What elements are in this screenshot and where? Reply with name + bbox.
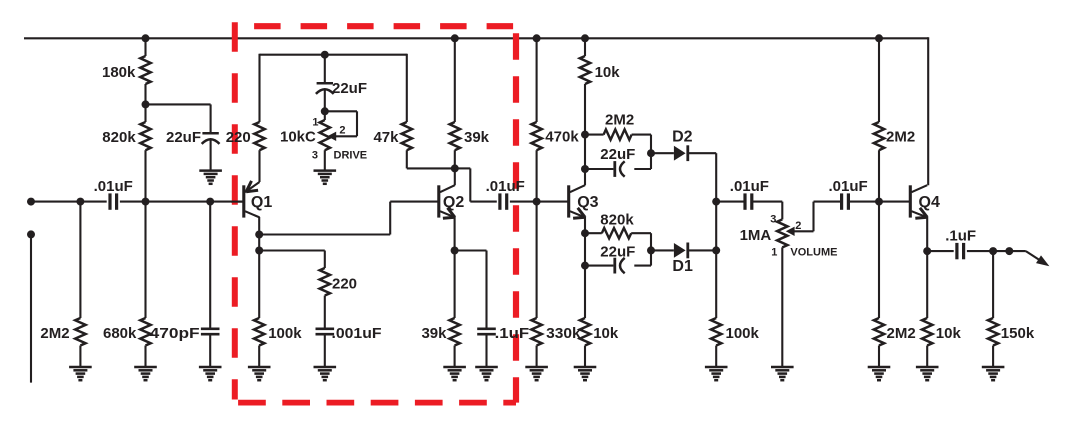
resistor R 2M2 (Q4 upper bias) (878, 38, 880, 122)
red dashed highlight box left edge (232, 22, 238, 399)
ground (470pF) (199, 366, 222, 369)
node: drive pot pin 1 (321, 107, 329, 115)
red dashed highlight box top edge (235, 23, 516, 29)
resistor R 820k (144, 104, 146, 122)
svg-text:.01uF: .01uF (829, 178, 868, 195)
resistor R 150k (output load) (992, 251, 994, 318)
wire: Q4 emitter to .1uF output cap (927, 250, 954, 252)
wire: Q1 junction to 220/.001uF branch (259, 249, 325, 251)
node: rail junction at 180k (142, 34, 150, 42)
svg-text:.1uF: .1uF (945, 228, 976, 245)
svg-text:VOLUME: VOLUME (790, 246, 837, 258)
capacitor .1uF (Q2 emitter bypass) (485, 251, 487, 328)
svg-text:.01uF: .01uF (486, 178, 525, 195)
svg-text:D2: D2 (672, 129, 693, 146)
ground (150k) (982, 366, 1005, 369)
wire: .01uF to Q1 base (120, 201, 244, 203)
wire: stub down (30, 234, 32, 382)
capacitor .1uF (output coupling) (955, 243, 958, 259)
node: diode mix node at D1 (712, 246, 720, 254)
svg-text:470pF: 470pF (150, 325, 200, 342)
svg-text:39k: 39k (464, 129, 490, 146)
resistor R 220 (Q1 degeneration) (324, 251, 326, 269)
resistor R 100k (mix node load) (711, 318, 721, 346)
capacitor .01uF (volume to Q4) (840, 193, 843, 209)
wire: D2 cathode to output node (688, 152, 716, 154)
node A: 180k/820k junction (144, 84, 146, 104)
svg-text:D1: D1 (672, 258, 693, 275)
diode D2 (651, 152, 674, 154)
capacitor 470pF (209, 202, 211, 328)
wire: Q2 emitter down (454, 217, 456, 251)
resistor R 2M2 (Q3 feedback) (585, 134, 604, 136)
wire: cap to volume pot pin 3 (752, 201, 782, 203)
svg-text:Q3: Q3 (577, 194, 598, 211)
node: mix node to .01uF branch (712, 198, 720, 206)
wire: drive pot pin 3 to ground (324, 150, 326, 170)
svg-text:330k: 330k (546, 325, 581, 342)
svg-text:47k: 47k (373, 129, 399, 146)
ground (volume pot) (771, 366, 794, 369)
ground (10k Q4) (916, 366, 939, 369)
node: Q3 base junction (533, 198, 541, 206)
node: rail junction at 10k (581, 34, 589, 42)
svg-text:1: 1 (312, 116, 318, 128)
capacitor .001uF (324, 296, 326, 328)
transistor Q3 (567, 185, 570, 217)
potentiometer 10kC DRIVE (324, 111, 326, 120)
node: inner wire to 22uF/drive pot (321, 51, 329, 59)
svg-text:2: 2 (339, 125, 345, 137)
capacitor 22uF (Q3 emitter, D1 feed) (585, 265, 613, 267)
power rail (top supply wire) (24, 37, 928, 39)
resistor R 10k (Q3 emitter to ground) (584, 266, 586, 318)
wire: output cap to output node (967, 250, 1026, 252)
svg-text:100k: 100k (268, 325, 302, 342)
node: Q3 emitter junction (820k branch) (581, 229, 589, 237)
node: D1 anode junction (647, 246, 655, 254)
diode D1 (651, 249, 674, 251)
wire: Q3 emitter down (584, 217, 586, 233)
transistor Q2 (437, 185, 440, 217)
ground (680k) (134, 366, 157, 369)
ground (2M2 Q4) (868, 366, 891, 369)
svg-text:.001uF: .001uF (332, 325, 382, 342)
node: Q2 collector junction (451, 164, 459, 172)
node: Q2 emitter junction (451, 247, 459, 255)
svg-text:Q4: Q4 (919, 194, 940, 211)
wire: Q1 to Q2 base (259, 233, 390, 235)
svg-text:22uF: 22uF (332, 80, 367, 97)
svg-text:10k: 10k (595, 64, 621, 81)
wire: Q2 emitter to .1uF (455, 249, 487, 251)
capacitor 22uF (Q3 collector, D2 feed) (585, 168, 613, 170)
node: Q3 emitter junction (22uF branch) (581, 262, 589, 270)
svg-text:2M2: 2M2 (886, 129, 915, 146)
svg-text:.1uF: .1uF (495, 325, 529, 342)
wire: coupling cap to Q3 base (510, 201, 569, 203)
wire: Q4 emitter down (926, 217, 928, 251)
capacitor .01uF (to volume pot) (716, 201, 745, 203)
wire: volume pot pin 1 to ground (781, 247, 783, 367)
drive pot wiper arrow (327, 132, 336, 141)
resistor R 39k (Q2 emitter) (454, 251, 456, 319)
svg-text:2M2: 2M2 (40, 325, 69, 342)
node: rail junction at 39k (451, 34, 459, 42)
ground (100k Q1) (248, 366, 271, 369)
input terminal node (27, 198, 35, 206)
resistor R 180k (144, 38, 146, 56)
svg-text:39k: 39k (421, 325, 447, 342)
svg-text:150k: 150k (1001, 325, 1035, 342)
svg-text:DRIVE: DRIVE (334, 149, 368, 161)
node: output terminal (1005, 247, 1013, 255)
wire: Q3 collector drop (584, 169, 586, 185)
red dashed highlight box bottom edge (235, 400, 516, 406)
wire: volume wiper to .01uF (793, 230, 813, 232)
resistor R 2M2 (Q4 lower bias) (878, 202, 880, 318)
node: Q3 collector junction (22uF branch) (581, 165, 589, 173)
ground (39k Q2) (443, 366, 466, 369)
svg-text:820k: 820k (600, 211, 634, 228)
svg-text:10k: 10k (593, 325, 619, 342)
node: D2 anode junction (647, 149, 655, 157)
svg-text:10kC: 10kC (280, 129, 316, 146)
wire: 22uF to ground (210, 139, 212, 170)
resistor R 10k (Q4 emitter) (926, 251, 928, 318)
ground (330k) (525, 366, 548, 369)
resistor R 100k (Q1 emitter) (258, 251, 260, 319)
potentiometer 1MA VOLUME (777, 219, 787, 247)
input stub terminal (bypass wire) (27, 230, 35, 238)
capacitor 22uF (supply filter) (202, 132, 218, 135)
transistor Q4 (909, 185, 912, 217)
svg-text:470k: 470k (545, 129, 579, 146)
node: 470pF junction on signal line (206, 198, 214, 206)
svg-text:22uF: 22uF (600, 244, 635, 261)
ground (.001uF) (314, 366, 337, 369)
svg-text:820k: 820k (102, 129, 136, 146)
wire: Q1 emitter-bottom lead down (258, 217, 260, 235)
resistor R 220 (Q1 collector load) (254, 122, 264, 150)
svg-text:.01uF: .01uF (730, 178, 769, 195)
wire: input to .01uF (31, 201, 107, 203)
resistor R 680k (144, 202, 146, 318)
transistor Q1 (242, 185, 245, 217)
svg-text:2M2: 2M2 (887, 325, 916, 342)
node: rail end junction (875, 34, 883, 42)
svg-text:Q2: Q2 (443, 194, 464, 211)
svg-text:Q1: Q1 (251, 194, 272, 211)
node: Q1 output junction upper (255, 231, 263, 239)
wire: Q2 collector output (455, 167, 471, 169)
ground (.1uF Q2) (475, 366, 498, 369)
svg-text:.01uF: .01uF (94, 178, 133, 195)
resistor R 10k (Q3 collector load) (584, 38, 586, 56)
resistor R 470k (536, 38, 538, 122)
svg-text:220: 220 (226, 129, 251, 146)
output arrow (1026, 251, 1040, 260)
ground (drive pot) (314, 169, 337, 172)
svg-text:3: 3 (770, 214, 776, 226)
volume pot wiper arrow (786, 227, 795, 236)
wire: D1 cathode to output node (688, 249, 716, 251)
svg-text:2M2: 2M2 (605, 112, 634, 129)
node: 820k junction on signal line (142, 198, 150, 206)
resistor R 47k (406, 54, 408, 122)
ground (22uF filter) (199, 169, 222, 172)
resistor R 39k (Q2 collector load) (454, 38, 456, 122)
red dashed highlight box right edge (513, 26, 519, 402)
wire: rail drop to Q4 collector (927, 37, 929, 185)
node: Q1 output junction lower (255, 247, 263, 255)
ground (2M2 input) (69, 366, 92, 369)
wire: cap to Q4 base (849, 201, 911, 203)
node: Q3 collector junction (2M2 branch) (581, 131, 589, 139)
svg-text:10k: 10k (936, 325, 962, 342)
svg-text:220: 220 (332, 276, 357, 293)
capacitor 22uF (drive bypass) (324, 55, 326, 84)
node: rail junction at 470k (533, 34, 541, 42)
resistor R 330k (Q3 base to ground) (536, 202, 538, 318)
svg-text:180k: 180k (102, 64, 136, 81)
svg-text:100k: 100k (726, 325, 760, 342)
capacitor .01uF (input coupling) (108, 193, 111, 209)
node: Q4 base junction (875, 198, 883, 206)
capacitor .01uF (Q2-Q3 coupling) (498, 193, 501, 209)
resistor R 2M2 (input to ground) (79, 202, 81, 318)
svg-text:1: 1 (771, 246, 777, 258)
ground (10k Q3) (574, 366, 597, 369)
svg-text:22uF: 22uF (600, 146, 635, 163)
svg-text:1MA: 1MA (740, 227, 772, 244)
svg-text:22uF: 22uF (166, 129, 201, 146)
node: Q4 emitter junction (923, 247, 931, 255)
wire: drive pot wiper loop (325, 110, 357, 112)
svg-text:3: 3 (312, 149, 318, 161)
node: 150k junction (989, 247, 997, 255)
node: 2M2 input bias junction (76, 198, 84, 206)
wire: 47k bottom to Q2 collector node (406, 150, 408, 168)
wire: junction to 22uF branch (146, 103, 211, 105)
svg-text:680k: 680k (103, 325, 137, 342)
wire: Q1 collector feed (inner top wire) (260, 54, 407, 56)
resistor R 820k (Q3 emitter, D1 feed) (585, 232, 602, 234)
ground (100k mix) (705, 366, 728, 369)
